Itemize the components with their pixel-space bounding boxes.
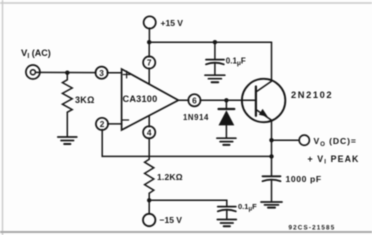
- ground (below C2): [217, 220, 236, 227]
- resistor R1 3K: [62, 73, 72, 113]
- node diode tap: [224, 98, 228, 102]
- transistor Q1 2N2102: [242, 79, 285, 122]
- wire pin7 to +15V rail: [148, 42, 150, 57]
- capacitor C1 0.1uF (top): [214, 42, 216, 59]
- svg-text:2N2102: 2N2102: [291, 90, 333, 100]
- wire 3K to ground: [66, 112, 68, 136]
- svg-text:+15 V: +15 V: [161, 18, 184, 28]
- wire pin3 to op-amp: [107, 72, 121, 74]
- pin 3: [96, 67, 108, 79]
- node rail/cap: [213, 40, 217, 44]
- svg-text:1000 pF: 1000 pF: [286, 174, 322, 184]
- svg-text:VI (AC): VI (AC): [21, 48, 51, 60]
- pin 2: [96, 118, 108, 130]
- svg-text:3KΩ: 3KΩ: [75, 95, 95, 105]
- VO terminal: [299, 135, 309, 145]
- svg-text:+ VI PEAK: + VI PEAK: [308, 154, 360, 166]
- wire pin4 down to 1.2K: [148, 138, 150, 159]
- node feedback tap: [269, 154, 273, 158]
- node -15V junction: [147, 198, 151, 202]
- +15V rail wire: [149, 41, 271, 43]
- wire pin2 down to feedback line: [102, 130, 271, 157]
- svg-text:1N914: 1N914: [183, 113, 209, 122]
- label VI (AC): [21, 48, 51, 60]
- wire -15V node to C2: [149, 200, 227, 206]
- svg-text:0.1μF: 0.1μF: [226, 57, 246, 68]
- ground (below C3): [261, 202, 282, 208]
- capacitor C2 0.1uF (bottom): [218, 207, 236, 212]
- +15V terminal: [144, 16, 156, 28]
- node rail/pin7: [147, 40, 151, 44]
- wire pin2 to op-amp: [108, 123, 122, 125]
- wire collector to rail: [271, 42, 273, 80]
- pin 6: [188, 94, 200, 106]
- pin 4: [143, 126, 155, 138]
- ground (below 3K): [58, 137, 77, 144]
- capacitor C3 1000pF: [263, 176, 281, 181]
- op-amp U1 CA3100: [122, 69, 179, 130]
- svg-text:92CS-21585: 92CS-21585: [289, 225, 336, 232]
- wire input to pin 3: [36, 71, 96, 73]
- resistor R2 1.2K: [145, 159, 154, 193]
- ground (below D1): [217, 138, 236, 145]
- svg-text:3: 3: [99, 68, 104, 78]
- pin 7: [143, 56, 155, 68]
- -15V terminal: [148, 200, 150, 214]
- ground (below C1): [205, 75, 225, 82]
- node VO tap: [269, 138, 273, 142]
- svg-text:6: 6: [192, 95, 197, 105]
- wire triangle to pin7: [148, 68, 150, 84]
- wire pin6 to base: [200, 99, 256, 101]
- svg-text:1.2KΩ: 1.2KΩ: [157, 172, 183, 182]
- node input/3K junction: [65, 71, 69, 75]
- svg-text:VO (DC)=: VO (DC)=: [314, 136, 357, 148]
- wire emitter down: [271, 120, 273, 175]
- svg-text:CA3100: CA3100: [123, 94, 158, 104]
- svg-text:2: 2: [100, 119, 105, 129]
- wire to VO terminal: [272, 139, 300, 141]
- diode D1 1N914: [225, 100, 227, 108]
- svg-text:4: 4: [147, 127, 152, 137]
- svg-text:−15 V: −15 V: [160, 215, 183, 225]
- wire triangle to pin4: [148, 116, 150, 127]
- wire apex to pin6: [178, 99, 188, 101]
- input terminal VI(AC): [26, 65, 40, 79]
- svg-text:7: 7: [147, 58, 152, 68]
- svg-text:0.1μF: 0.1μF: [238, 202, 257, 213]
